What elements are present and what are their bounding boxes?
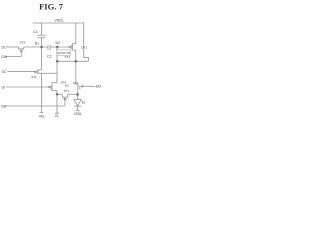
svg-text:C1: C1 [33, 30, 38, 34]
svg-text:GW: GW [1, 55, 8, 59]
svg-text:GC: GC [2, 70, 8, 74]
svg-text:VSSL: VSSL [74, 112, 82, 116]
svg-text:N2: N2 [56, 41, 60, 45]
svg-text:GI: GI [2, 86, 6, 90]
svg-text:ST7: ST7 [64, 89, 70, 93]
svg-text:VDDL: VDDL [54, 19, 63, 23]
svg-text:EL: EL [82, 101, 86, 105]
svg-text:VL: VL [55, 114, 59, 118]
svg-text:GB: GB [1, 105, 7, 109]
svg-text:ST6: ST6 [73, 81, 79, 85]
svg-text:C2: C2 [47, 55, 52, 59]
svg-text:ST3: ST3 [65, 55, 71, 59]
svg-text:N3: N3 [65, 83, 69, 87]
svg-text:ST2: ST2 [20, 41, 26, 45]
svg-text:DT1: DT1 [81, 45, 87, 49]
svg-text:VEL: VEL [39, 115, 45, 119]
svg-text:DL: DL [2, 45, 6, 49]
svg-text:FIG. 7: FIG. 7 [39, 2, 64, 12]
svg-text:N1: N1 [35, 42, 39, 46]
svg-text:ST1: ST1 [31, 75, 37, 79]
svg-text:EM: EM [96, 84, 101, 88]
